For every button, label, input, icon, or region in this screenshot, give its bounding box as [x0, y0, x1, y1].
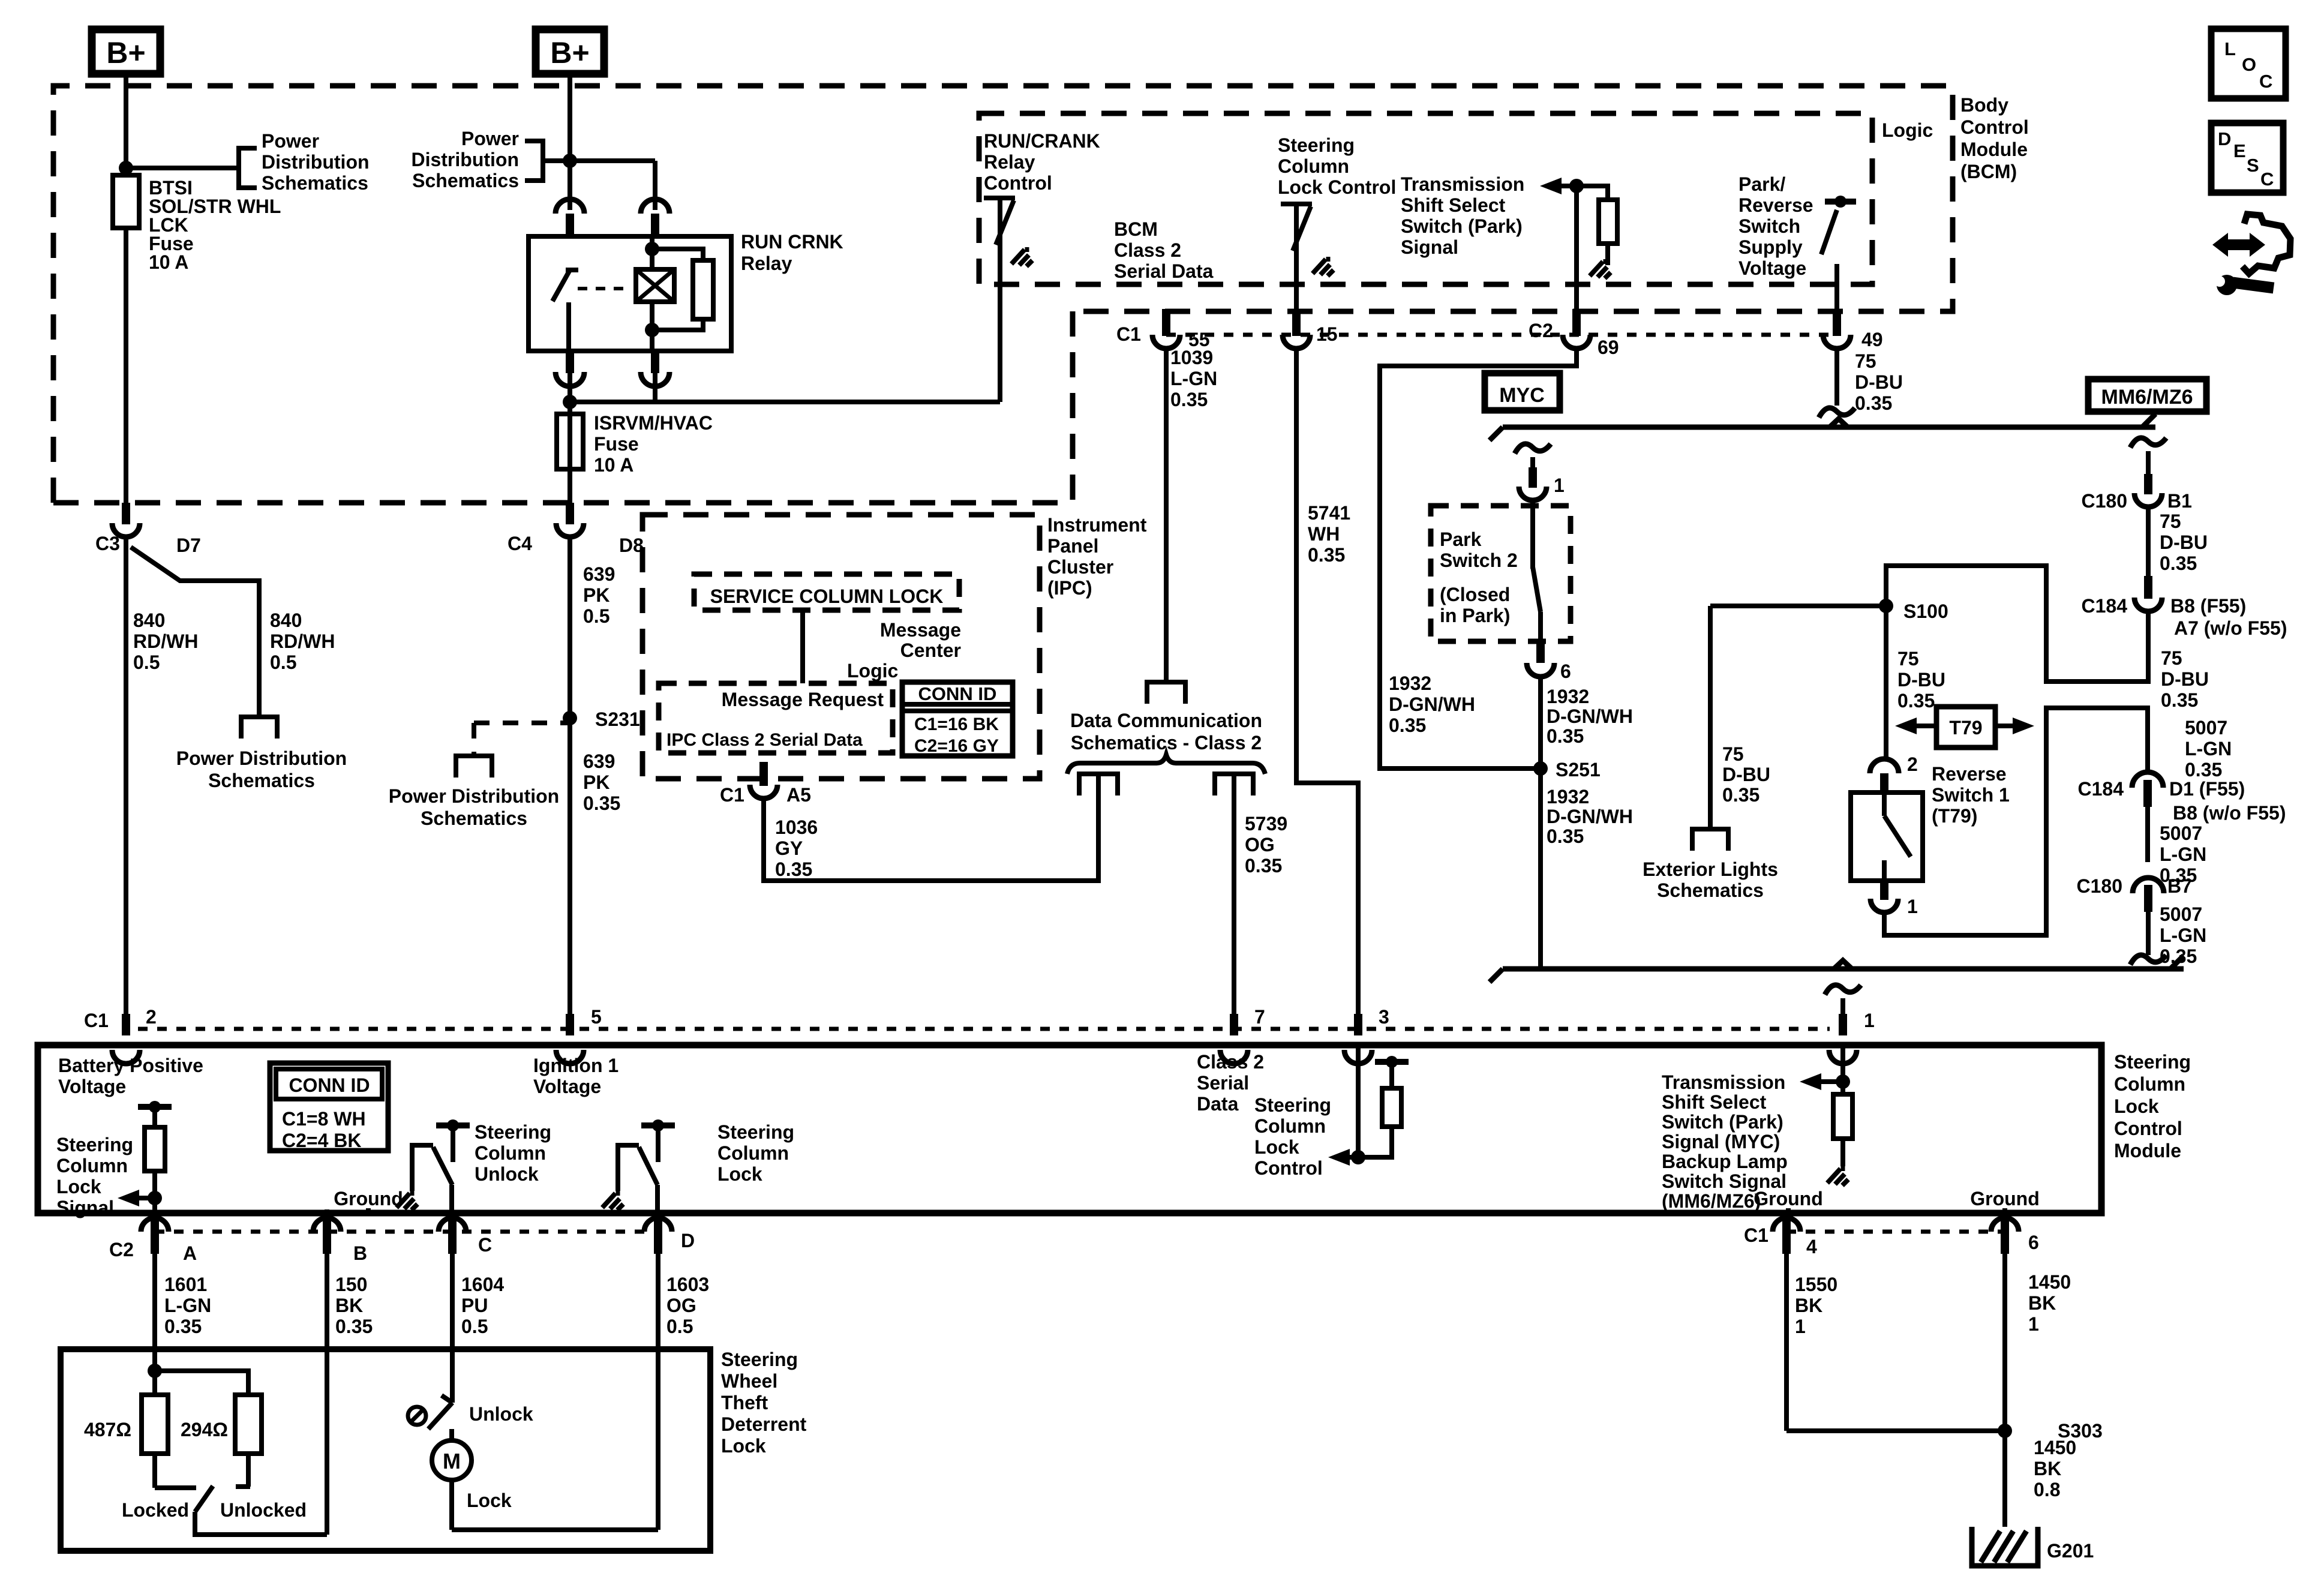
svg-text:Steering: Steering	[717, 1121, 794, 1143]
svg-text:A5: A5	[786, 784, 811, 806]
svg-text:1: 1	[1864, 1010, 1875, 1031]
svg-text:Lock: Lock	[1254, 1136, 1299, 1158]
svg-text:Theft: Theft	[721, 1392, 768, 1413]
svg-text:in Park): in Park)	[1440, 605, 1510, 626]
svg-text:Power: Power	[461, 128, 519, 149]
svg-text:0.35: 0.35	[335, 1316, 373, 1337]
svg-text:C180: C180	[2077, 875, 2123, 897]
svg-text:2: 2	[146, 1006, 157, 1028]
svg-text:Relay: Relay	[984, 151, 1035, 173]
svg-text:0.5: 0.5	[666, 1316, 693, 1337]
svg-text:C2=16 GY: C2=16 GY	[914, 736, 999, 756]
svg-text:75: 75	[2160, 511, 2181, 532]
svg-text:Cluster: Cluster	[1047, 556, 1113, 578]
svg-text:1550: 1550	[1795, 1274, 1837, 1295]
svg-text:Transmission: Transmission	[1662, 1071, 1785, 1093]
svg-text:L-GN: L-GN	[1170, 368, 1217, 389]
svg-text:0.35: 0.35	[775, 858, 812, 880]
svg-text:(Closed: (Closed	[1440, 584, 1510, 605]
svg-text:Logic: Logic	[847, 660, 898, 682]
svg-text:(MM6/MZ6): (MM6/MZ6)	[1662, 1190, 1761, 1212]
svg-text:RUN CRNK: RUN CRNK	[741, 231, 843, 253]
svg-text:C184: C184	[2078, 778, 2124, 800]
svg-text:Voltage: Voltage	[533, 1076, 601, 1097]
svg-text:Power: Power	[262, 130, 319, 152]
svg-text:Control: Control	[1960, 116, 2029, 138]
svg-text:B+: B+	[106, 36, 145, 70]
svg-text:0.35: 0.35	[164, 1316, 202, 1337]
svg-text:Lock: Lock	[721, 1435, 766, 1457]
svg-text:CONN ID: CONN ID	[289, 1074, 370, 1096]
svg-text:Data: Data	[1197, 1093, 1239, 1115]
svg-text:A7 (w/o F55): A7 (w/o F55)	[2174, 617, 2287, 639]
svg-text:5007: 5007	[2185, 717, 2227, 739]
svg-text:C1=16 BK: C1=16 BK	[914, 715, 999, 734]
svg-text:0.35: 0.35	[1855, 392, 1892, 414]
svg-text:OG: OG	[1245, 834, 1275, 855]
svg-text:Signal (MYC): Signal (MYC)	[1662, 1131, 1780, 1152]
svg-text:0.5: 0.5	[270, 652, 296, 673]
svg-text:BK: BK	[1795, 1295, 1822, 1316]
svg-text:RD/WH: RD/WH	[270, 631, 335, 652]
svg-text:Ground: Ground	[334, 1188, 403, 1209]
svg-text:C1=8 WH: C1=8 WH	[282, 1108, 366, 1130]
svg-text:Module: Module	[1960, 139, 2028, 160]
svg-text:10 A: 10 A	[594, 454, 633, 476]
svg-text:Message: Message	[880, 619, 961, 641]
svg-text:PK: PK	[583, 584, 609, 606]
svg-text:IPC Class 2 Serial Data: IPC Class 2 Serial Data	[666, 730, 863, 750]
svg-text:D-BU: D-BU	[2161, 668, 2209, 690]
svg-text:Power Distribution: Power Distribution	[389, 785, 559, 807]
svg-text:Unlock: Unlock	[475, 1163, 539, 1185]
svg-text:1932: 1932	[1547, 686, 1589, 707]
svg-text:S251: S251	[1556, 759, 1601, 781]
svg-text:B1: B1	[2167, 490, 2192, 512]
svg-text:0.35: 0.35	[1389, 715, 1426, 736]
svg-text:C3: C3	[95, 533, 120, 554]
svg-text:E: E	[2233, 140, 2246, 161]
svg-text:487Ω: 487Ω	[84, 1419, 131, 1440]
svg-text:D-GN/WH: D-GN/WH	[1389, 694, 1475, 715]
svg-text:D-GN/WH: D-GN/WH	[1547, 806, 1633, 827]
svg-text:Lock Control: Lock Control	[1278, 176, 1396, 198]
svg-text:0.35: 0.35	[1170, 389, 1208, 410]
svg-text:OG: OG	[666, 1295, 696, 1316]
svg-text:Reverse: Reverse	[1739, 194, 1813, 216]
svg-text:Schematics: Schematics	[421, 807, 527, 829]
svg-text:150: 150	[335, 1274, 367, 1295]
svg-text:1: 1	[1554, 475, 1565, 496]
svg-text:(T79): (T79)	[1932, 805, 1977, 827]
svg-text:PU: PU	[461, 1295, 488, 1316]
svg-text:0.35: 0.35	[1308, 544, 1345, 566]
svg-text:Steering: Steering	[721, 1349, 798, 1370]
svg-text:Serial Data: Serial Data	[1114, 260, 1214, 282]
svg-text:6: 6	[1560, 661, 1571, 682]
svg-text:Shift Select: Shift Select	[1662, 1091, 1767, 1113]
svg-text:S231: S231	[595, 709, 640, 730]
svg-text:L-GN: L-GN	[2160, 924, 2206, 946]
svg-text:75: 75	[2161, 647, 2182, 669]
svg-text:Data Communication: Data Communication	[1070, 710, 1262, 731]
svg-text:C1: C1	[1744, 1224, 1768, 1246]
svg-text:75: 75	[1855, 350, 1876, 372]
svg-text:BCM: BCM	[1114, 218, 1158, 240]
svg-text:840: 840	[270, 610, 302, 631]
svg-text:1603: 1603	[666, 1274, 709, 1295]
svg-text:1604: 1604	[461, 1274, 504, 1295]
svg-text:Control: Control	[2114, 1118, 2182, 1139]
svg-text:C1: C1	[720, 784, 744, 806]
svg-text:Switch (Park): Switch (Park)	[1401, 215, 1523, 237]
svg-text:Logic: Logic	[1882, 119, 1933, 141]
svg-text:1601: 1601	[164, 1274, 207, 1295]
svg-text:Park/: Park/	[1739, 173, 1785, 195]
svg-text:Instrument: Instrument	[1047, 514, 1147, 536]
svg-text:294Ω: 294Ω	[181, 1419, 228, 1440]
svg-text:D: D	[2218, 128, 2231, 149]
svg-text:Serial: Serial	[1197, 1072, 1249, 1094]
svg-text:Relay: Relay	[741, 253, 792, 274]
svg-text:C: C	[2259, 71, 2272, 92]
svg-text:Exterior Lights: Exterior Lights	[1643, 858, 1778, 880]
svg-text:L-GN: L-GN	[2160, 843, 2206, 865]
svg-text:1039: 1039	[1170, 347, 1213, 368]
svg-text:RUN/CRANK: RUN/CRANK	[984, 130, 1100, 152]
svg-text:Ground: Ground	[1970, 1188, 2040, 1209]
svg-text:B8 (w/o F55): B8 (w/o F55)	[2173, 802, 2286, 824]
svg-text:D-BU: D-BU	[2160, 532, 2208, 553]
svg-text:Voltage: Voltage	[1739, 257, 1806, 279]
svg-text:75: 75	[1722, 743, 1744, 765]
svg-text:D: D	[681, 1230, 695, 1251]
svg-text:G201: G201	[2047, 1540, 2094, 1562]
svg-text:Message Request: Message Request	[722, 689, 884, 710]
svg-text:Switch: Switch	[1739, 215, 1800, 237]
svg-text:BK: BK	[2034, 1458, 2061, 1479]
svg-text:MM6/MZ6: MM6/MZ6	[2101, 386, 2193, 409]
svg-text:Body: Body	[1960, 94, 2008, 116]
svg-text:Voltage: Voltage	[58, 1076, 126, 1097]
svg-text:Column: Column	[1278, 155, 1349, 177]
svg-text:D-BU: D-BU	[1722, 764, 1770, 785]
svg-text:C: C	[2260, 169, 2274, 190]
svg-text:Distribution: Distribution	[262, 151, 370, 173]
svg-text:1: 1	[2028, 1313, 2039, 1335]
svg-text:Wheel: Wheel	[721, 1370, 777, 1392]
svg-text:C2: C2	[109, 1239, 134, 1260]
svg-text:Switch (Park): Switch (Park)	[1662, 1111, 1783, 1133]
svg-text:O: O	[2242, 54, 2256, 75]
svg-text:Steering: Steering	[2114, 1051, 2191, 1073]
svg-text:C2=4 BK: C2=4 BK	[282, 1130, 362, 1151]
svg-text:B8 (F55): B8 (F55)	[2170, 595, 2246, 617]
svg-text:Panel: Panel	[1047, 535, 1098, 557]
svg-text:1450: 1450	[2034, 1437, 2076, 1458]
svg-text:D-BU: D-BU	[1855, 371, 1903, 393]
svg-text:1932: 1932	[1389, 673, 1431, 694]
svg-text:Power Distribution: Power Distribution	[176, 748, 347, 769]
svg-text:C180: C180	[2082, 490, 2128, 512]
svg-text:BK: BK	[335, 1295, 363, 1316]
svg-text:5007: 5007	[2160, 822, 2202, 844]
svg-text:1932: 1932	[1547, 786, 1589, 807]
svg-text:5: 5	[591, 1006, 602, 1028]
svg-text:WH: WH	[1308, 523, 1340, 545]
svg-text:D-BU: D-BU	[1897, 669, 1945, 691]
svg-text:B: B	[353, 1242, 367, 1264]
svg-text:0.35: 0.35	[1897, 690, 1935, 712]
svg-text:5741: 5741	[1308, 502, 1350, 524]
svg-text:1: 1	[1907, 896, 1918, 917]
svg-text:Signal: Signal	[1401, 236, 1458, 258]
svg-text:5007: 5007	[2160, 903, 2202, 925]
svg-text:BK: BK	[2028, 1292, 2056, 1314]
svg-text:L-GN: L-GN	[2185, 738, 2232, 760]
svg-text:Locked: Locked	[122, 1499, 189, 1521]
svg-text:Unlocked: Unlocked	[220, 1499, 307, 1521]
svg-text:(BCM): (BCM)	[1960, 161, 2017, 182]
svg-text:Distribution: Distribution	[411, 149, 519, 170]
svg-text:1: 1	[1795, 1316, 1806, 1337]
svg-text:Control: Control	[984, 172, 1052, 194]
svg-text:49: 49	[1861, 329, 1883, 350]
svg-text:Lock: Lock	[467, 1490, 512, 1511]
svg-text:MYC: MYC	[1499, 384, 1545, 407]
svg-text:(IPC): (IPC)	[1047, 577, 1092, 599]
svg-text:Supply: Supply	[1739, 236, 1803, 258]
svg-text:Schematics: Schematics	[208, 770, 315, 791]
svg-text:C1: C1	[84, 1010, 109, 1031]
svg-text:69: 69	[1598, 337, 1619, 358]
svg-text:L-GN: L-GN	[164, 1295, 211, 1316]
svg-text:Fuse: Fuse	[594, 433, 639, 455]
svg-text:Center: Center	[900, 640, 961, 661]
svg-text:B+: B+	[550, 36, 589, 70]
svg-text:D1 (F55): D1 (F55)	[2169, 778, 2245, 800]
svg-text:C184: C184	[2082, 595, 2128, 617]
svg-text:Schematics: Schematics	[262, 172, 368, 194]
svg-text:ISRVM/HVAC: ISRVM/HVAC	[594, 412, 713, 434]
svg-text:A: A	[183, 1242, 197, 1264]
svg-text:0.35: 0.35	[2160, 553, 2197, 574]
svg-text:Column: Column	[56, 1155, 128, 1176]
svg-text:T79: T79	[1949, 717, 1982, 739]
svg-text:Switch 2: Switch 2	[1440, 550, 1518, 571]
svg-text:Steering: Steering	[1254, 1094, 1331, 1116]
svg-text:S: S	[2247, 155, 2259, 176]
svg-text:840: 840	[133, 610, 165, 631]
svg-text:Unlock: Unlock	[469, 1403, 533, 1425]
svg-text:Reverse: Reverse	[1932, 763, 2007, 785]
svg-text:Deterrent: Deterrent	[721, 1413, 807, 1435]
svg-text:L: L	[2224, 38, 2236, 59]
svg-text:Lock: Lock	[717, 1163, 762, 1185]
svg-text:Control: Control	[1254, 1157, 1323, 1179]
svg-text:1036: 1036	[775, 816, 818, 838]
svg-text:Battery Positive: Battery Positive	[58, 1055, 203, 1076]
svg-text:Column: Column	[1254, 1115, 1326, 1137]
svg-text:Lock: Lock	[2114, 1095, 2159, 1117]
svg-text:Signal: Signal	[56, 1197, 114, 1218]
svg-text:Module: Module	[2114, 1140, 2181, 1161]
svg-text:Class 2: Class 2	[1114, 239, 1181, 261]
svg-text:C4: C4	[508, 533, 532, 554]
svg-text:0.35: 0.35	[1547, 825, 1584, 847]
svg-text:Column: Column	[2114, 1073, 2185, 1095]
svg-text:Class 2: Class 2	[1197, 1051, 1264, 1073]
svg-text:Schematics: Schematics	[412, 170, 519, 191]
svg-text:Ignition 1: Ignition 1	[533, 1055, 618, 1076]
svg-text:M: M	[443, 1449, 461, 1473]
svg-text:Shift Select: Shift Select	[1401, 194, 1506, 216]
svg-text:Steering: Steering	[56, 1134, 133, 1155]
svg-text:0.5: 0.5	[461, 1316, 488, 1337]
svg-text:0.35: 0.35	[1245, 855, 1282, 876]
svg-text:B7: B7	[2167, 875, 2192, 897]
svg-text:S100: S100	[1903, 601, 1948, 622]
svg-text:7: 7	[1254, 1006, 1265, 1028]
svg-text:Transmission: Transmission	[1401, 173, 1524, 195]
svg-text:0.5: 0.5	[583, 605, 609, 627]
svg-text:5739: 5739	[1245, 813, 1287, 834]
svg-text:Lock: Lock	[56, 1176, 101, 1197]
svg-text:3: 3	[1379, 1006, 1389, 1028]
svg-text:15: 15	[1316, 323, 1338, 345]
svg-text:PK: PK	[583, 772, 609, 793]
svg-text:0.35: 0.35	[583, 792, 620, 814]
svg-text:Park: Park	[1440, 529, 1482, 550]
svg-text:0.35: 0.35	[1547, 725, 1584, 747]
svg-text:Backup Lamp: Backup Lamp	[1662, 1151, 1788, 1172]
svg-text:C1: C1	[1116, 323, 1141, 345]
svg-text:RD/WH: RD/WH	[133, 631, 198, 652]
svg-text:10 A: 10 A	[149, 251, 188, 273]
svg-text:Switch 1: Switch 1	[1932, 784, 2010, 806]
svg-text:2: 2	[1907, 754, 1918, 775]
svg-text:D7: D7	[176, 535, 201, 556]
svg-text:0.35: 0.35	[2185, 759, 2222, 781]
svg-text:Ground: Ground	[1753, 1188, 1823, 1209]
svg-text:1450: 1450	[2028, 1271, 2071, 1293]
svg-text:75: 75	[1897, 648, 1919, 670]
svg-text:6: 6	[2028, 1232, 2039, 1253]
svg-text:C: C	[478, 1234, 492, 1256]
svg-text:Column: Column	[717, 1142, 789, 1164]
svg-text:C2: C2	[1529, 320, 1553, 341]
svg-text:0.35: 0.35	[1722, 784, 1759, 806]
svg-text:Steering: Steering	[475, 1121, 551, 1143]
svg-text:D-GN/WH: D-GN/WH	[1547, 706, 1633, 727]
svg-text:Schematics: Schematics	[1657, 879, 1764, 901]
svg-text:639: 639	[583, 751, 615, 772]
svg-text:0.35: 0.35	[2161, 689, 2198, 711]
svg-text:0.8: 0.8	[2034, 1479, 2060, 1500]
svg-text:Steering: Steering	[1278, 134, 1355, 156]
svg-text:0.5: 0.5	[133, 652, 160, 673]
svg-text:4: 4	[1806, 1236, 1817, 1257]
svg-text:Column: Column	[475, 1142, 546, 1164]
svg-text:CONN ID: CONN ID	[918, 683, 997, 704]
svg-text:639: 639	[583, 563, 615, 585]
svg-text:SERVICE COLUMN LOCK: SERVICE COLUMN LOCK	[710, 586, 944, 607]
svg-text:GY: GY	[775, 837, 803, 859]
